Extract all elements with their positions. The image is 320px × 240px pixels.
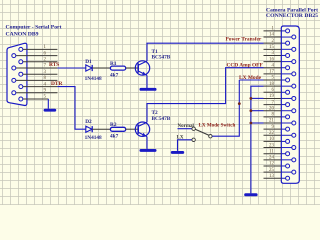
svg-text:18: 18 <box>269 82 274 87</box>
DB25 pin 21 <box>264 119 296 125</box>
svg-text:14: 14 <box>269 33 274 38</box>
DB25 pin 11 <box>264 149 290 155</box>
DB25 pin 24 <box>264 156 296 162</box>
wire T2 collector to CCD Amp OFF (DB25 pin 4) <box>147 68 264 123</box>
DB9 pin 6 <box>12 51 58 57</box>
DB9 pin 5 <box>19 95 49 101</box>
svg-text:21: 21 <box>269 119 274 124</box>
DB9 pin 7 <box>12 64 58 70</box>
wire LX contact to ground <box>178 140 192 151</box>
svg-text:Power Transfer: Power Transfer <box>226 36 262 42</box>
svg-text:17: 17 <box>269 70 274 75</box>
wire switch common to LX Mode net <box>212 80 239 136</box>
ground (T1 emitter) <box>140 88 157 91</box>
svg-text:CONNECTOR DB25: CONNECTOR DB25 <box>266 13 318 19</box>
resistor R1 <box>110 66 125 70</box>
DB9 pin 2 <box>19 58 58 64</box>
DB25 pin 10 <box>264 137 290 143</box>
DB25 pin 23 <box>264 143 296 149</box>
DB25 pin 3 <box>264 51 290 57</box>
svg-text:D2: D2 <box>85 119 92 125</box>
DB9 pin 1 <box>19 45 58 51</box>
transistor T2 <box>135 122 149 137</box>
diode D1 <box>86 65 92 71</box>
svg-text:19: 19 <box>269 94 274 99</box>
DB25 pin 8 <box>264 113 290 119</box>
svg-text:BC547B: BC547B <box>152 55 171 61</box>
resistor R2 <box>110 127 125 131</box>
DB25 pin 7 <box>264 100 290 106</box>
junction (LX Mode net joins T2 collector wire) <box>238 102 241 105</box>
switch contact (LX) <box>192 138 195 141</box>
wire T1 collector to DB25 pin 2 (Power Transfer) <box>147 43 264 61</box>
svg-text:CCD Amp OFF: CCD Amp OFF <box>227 62 264 68</box>
DB25 pin 1 <box>264 27 290 33</box>
svg-text:11: 11 <box>269 149 274 154</box>
DB25 pin 5 <box>264 76 290 82</box>
svg-text:R2: R2 <box>110 122 117 128</box>
DB25 pin 25 <box>264 168 296 174</box>
svg-text:25: 25 <box>269 168 274 173</box>
svg-text:Computer - Serial Port: Computer - Serial Port <box>6 25 62 31</box>
wire pin5 to ground <box>47 99 49 109</box>
DB9 pin 3 <box>19 70 58 76</box>
svg-text:1N4148: 1N4148 <box>85 135 102 141</box>
diode D2 <box>86 126 92 132</box>
switch common contact <box>209 135 212 138</box>
wire T2 emitter down <box>146 137 148 149</box>
svg-text:1N4148: 1N4148 <box>85 76 102 82</box>
wire T1 emitter down <box>146 75 148 88</box>
svg-text:LX Mode: LX Mode <box>239 75 262 81</box>
connector DB25 body <box>281 26 299 183</box>
transistor T1 <box>135 61 149 76</box>
svg-text:4k7: 4k7 <box>110 72 119 78</box>
DB25 pin 2 <box>264 39 290 45</box>
svg-text:12: 12 <box>269 162 274 167</box>
DB25 pin 17 <box>264 70 296 76</box>
ground (LX contact) <box>171 151 184 154</box>
DB25 pin 6 <box>264 88 290 94</box>
svg-text:13: 13 <box>269 174 274 179</box>
wire RTS from DB9 pin7 to D1 <box>57 67 85 69</box>
svg-text:15: 15 <box>269 45 274 50</box>
ground (DB25 bus) <box>244 193 257 196</box>
wire DB25 pin 20 to ground bus <box>251 110 264 112</box>
DB9 pin 9 <box>12 89 58 95</box>
DB25 pin 9 <box>264 125 290 131</box>
svg-text:CANON DB9: CANON DB9 <box>6 31 39 37</box>
svg-text:LX Mode Switch: LX Mode Switch <box>199 123 236 129</box>
switch lever SW1 <box>195 129 209 135</box>
DB25 pin 13 <box>264 174 290 180</box>
svg-text:24: 24 <box>269 156 274 161</box>
DB25 pin 4 <box>264 63 290 69</box>
svg-text:23: 23 <box>269 143 274 148</box>
switch contact (Normal) <box>192 127 195 130</box>
wire DB25 pin 18 to ground bus <box>251 86 264 193</box>
svg-text:4k7: 4k7 <box>110 134 119 140</box>
ground (DB9 pin 5) <box>44 109 57 112</box>
wire DB25 pin 21 to ground bus <box>251 122 264 124</box>
svg-text:BC547B: BC547B <box>152 116 171 122</box>
svg-text:22: 22 <box>269 131 274 136</box>
svg-text:10: 10 <box>269 137 274 142</box>
DB25 pin 16 <box>264 57 296 63</box>
DB25 pin 19 <box>264 94 296 100</box>
connector DB9 body <box>7 43 27 105</box>
wire DTR from DB9 pin4 <box>57 87 85 130</box>
wire Normal contact <box>178 128 192 130</box>
wire LX Mode to DB25 pin 5 <box>239 79 263 81</box>
junction (ground bus / pin 21) <box>250 122 253 125</box>
ground (T2 emitter) <box>140 149 157 152</box>
junction (ground bus / pin 19) <box>250 97 253 100</box>
junction (ground bus / pin 20) <box>250 109 253 112</box>
wire R1 to T1 base <box>126 67 139 69</box>
svg-text:RTS: RTS <box>49 62 59 68</box>
DB25 pin 22 <box>264 131 296 137</box>
svg-text:16: 16 <box>269 57 274 62</box>
DB9 pin 8 <box>12 76 58 82</box>
svg-text:R1: R1 <box>110 61 117 67</box>
wire D1 to R1 <box>92 67 110 69</box>
wire DB25 pin 19 to ground bus <box>251 97 264 99</box>
svg-text:D1: D1 <box>85 59 92 65</box>
DB25 pin 18 <box>264 82 296 88</box>
DB25 pin 12 <box>264 162 290 168</box>
wire D2 to R2 <box>92 128 110 130</box>
DB25 pin 15 <box>264 45 296 51</box>
DB9 pin 4 <box>19 82 58 88</box>
DB25 pin 14 <box>264 33 296 39</box>
wire R2 to T2 base <box>126 128 139 130</box>
svg-text:20: 20 <box>269 106 274 111</box>
DB25 pin 20 <box>264 106 296 112</box>
